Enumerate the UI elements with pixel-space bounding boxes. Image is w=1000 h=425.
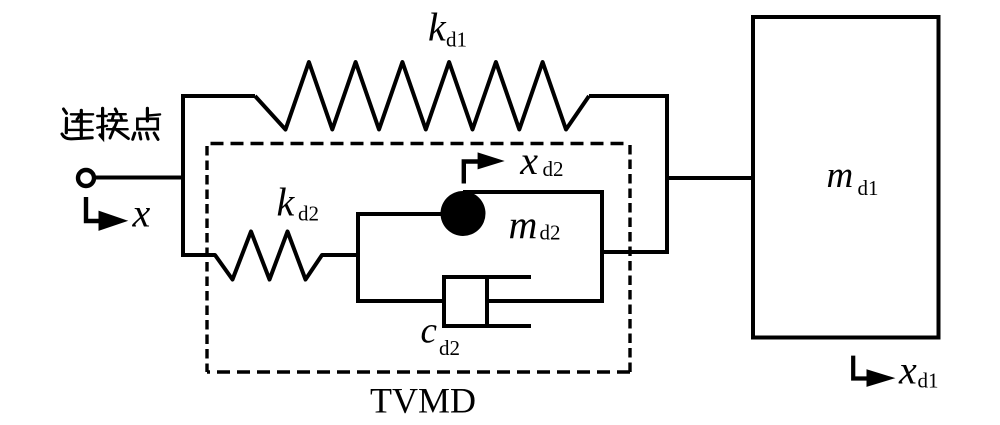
svg-text:k: k <box>428 5 447 50</box>
label x_d1 <box>898 348 939 393</box>
char 连 <box>62 109 93 139</box>
wire right bus to mass m_d1 <box>667 176 753 180</box>
right bus vertical wire <box>665 94 669 254</box>
TVMD dashed box <box>207 144 630 373</box>
wire inner frame top-left horizontal <box>358 212 448 216</box>
label m_d1 <box>827 155 879 200</box>
damper c_d2 right rod <box>487 299 604 303</box>
wire inner frame left vertical <box>356 212 360 303</box>
arrow x (connection point displacement) <box>86 197 128 231</box>
label 连接点 (hand-drawn CJK) <box>62 108 160 139</box>
svg-text:d2: d2 <box>543 157 564 181</box>
label x_d2 <box>519 138 563 183</box>
wire top-left horizontal <box>181 94 255 98</box>
wire inner frame right to bus <box>602 250 667 254</box>
svg-text:x: x <box>898 348 917 393</box>
label c_d2 <box>421 311 461 361</box>
label k_d2 <box>277 180 320 226</box>
wire terminal to left bus <box>96 176 185 180</box>
svg-text:m: m <box>827 155 854 196</box>
svg-text:d2: d2 <box>439 336 460 360</box>
wire inner frame bottom-left horizontal (damper left rod) <box>356 299 444 303</box>
svg-text:m: m <box>509 202 538 247</box>
mass m_d1 box <box>753 17 939 338</box>
left bus vertical wire <box>181 94 185 257</box>
damper c_d2 piston plate <box>485 277 489 326</box>
svg-text:x: x <box>519 138 538 183</box>
label k_d1 <box>428 5 467 52</box>
flywheel mass dot <box>441 191 486 236</box>
damper c_d2 cylinder <box>444 277 531 326</box>
char 接 <box>97 108 128 138</box>
spring k_d1 <box>255 62 589 130</box>
connection terminal circle <box>78 170 94 186</box>
svg-text:d1: d1 <box>446 28 467 52</box>
wire top-right horizontal <box>589 94 669 98</box>
char 点 <box>133 108 160 139</box>
svg-text:k: k <box>277 180 296 225</box>
svg-text:d2: d2 <box>298 202 319 226</box>
svg-text:d2: d2 <box>540 221 561 245</box>
wire inner frame right vertical <box>600 190 604 303</box>
arrow x_d2 (inner mass displacement) <box>464 152 505 183</box>
svg-text:TVMD: TVMD <box>370 381 476 421</box>
wire inner frame top horizontal <box>463 190 604 194</box>
svg-text:x: x <box>132 191 151 236</box>
svg-text:c: c <box>421 311 438 352</box>
spring k_d2 <box>183 232 360 280</box>
svg-text:d1: d1 <box>918 369 939 393</box>
svg-text:d1: d1 <box>858 176 879 200</box>
label m_d2 <box>509 202 561 247</box>
arrow x_d1 (mass m_d1 displacement) <box>853 356 895 387</box>
